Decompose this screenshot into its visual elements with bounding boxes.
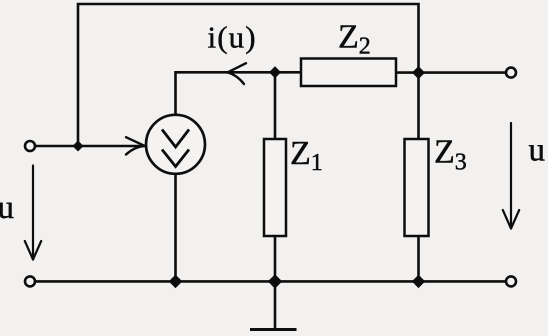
svg-text:i(u): i(u)	[208, 19, 257, 54]
node bottom rail under Z3	[412, 275, 425, 288]
node on left input wire (x=78)	[73, 141, 84, 152]
svg-text:u: u	[0, 190, 14, 226]
wire from source top up and right to node A	[176, 72, 302, 115]
terminal input left top	[25, 141, 35, 151]
terminal input left bottom	[25, 276, 35, 286]
ground	[250, 328, 297, 331]
wire Z3 bottom down to bottom rail	[417, 236, 420, 281]
wire current source bottom to bottom rail	[174, 174, 177, 282]
arrowhead into current source	[126, 137, 145, 154]
wire left horizontal from input terminal to current source	[35, 145, 145, 148]
wire from Z2 right to node B and right output terminal	[396, 71, 506, 74]
terminal output right bottom	[506, 276, 516, 286]
wire node A down to Z1 top	[274, 72, 277, 139]
arrowhead i(u) pointing left on top wire	[228, 63, 247, 84]
arrow u (left side, pointing down)	[25, 166, 41, 260]
wire Z1 bottom down to bottom rail and ground	[274, 236, 277, 329]
wire node B down to Z3 top	[417, 73, 420, 139]
node A (junction on top wire, x=275)	[269, 66, 281, 78]
wire top loop (left riser, top rail, right drop)	[78, 4, 419, 146]
terminal output right top	[506, 68, 516, 78]
svg-text:u: u	[529, 133, 546, 169]
wire bottom rail	[35, 280, 506, 283]
impedance Z3	[405, 139, 429, 236]
node bottom rail under source	[169, 275, 183, 289]
arrow u (right side, pointing down)	[503, 123, 519, 229]
current source U1 (controlled source circle with double chevron)	[146, 115, 205, 174]
impedance Z1	[264, 139, 286, 236]
impedance Z2	[301, 59, 396, 87]
node B (junction at x=418.5 on output wire)	[412, 66, 425, 79]
node bottom rail under Z1 / ground	[268, 274, 282, 288]
